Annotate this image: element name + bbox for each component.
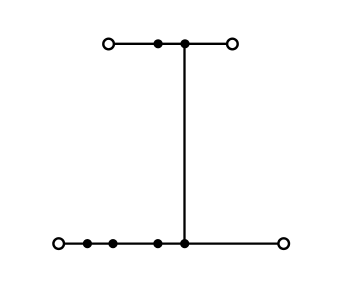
junction: bottom rail dot 4 (vertical link tap) bbox=[180, 239, 189, 248]
junction: bottom rail dot 2 bbox=[108, 239, 117, 248]
junction: bottom rail dot 1 bbox=[83, 239, 92, 248]
terminal: top-right open circle bbox=[227, 39, 238, 50]
wire: top rail bbox=[109, 43, 233, 45]
terminal: bottom-left open circle bbox=[53, 238, 64, 249]
junction: top rail dot 1 bbox=[154, 39, 163, 48]
terminal: bottom-right open circle bbox=[278, 238, 289, 249]
terminal: top-left open circle bbox=[103, 39, 114, 50]
junction: bottom rail dot 3 bbox=[153, 239, 162, 248]
wire: bottom rail bbox=[59, 242, 284, 244]
wire: vertical link between decks bbox=[183, 44, 185, 244]
junction: top rail dot 2 (vertical link tap) bbox=[180, 39, 189, 48]
